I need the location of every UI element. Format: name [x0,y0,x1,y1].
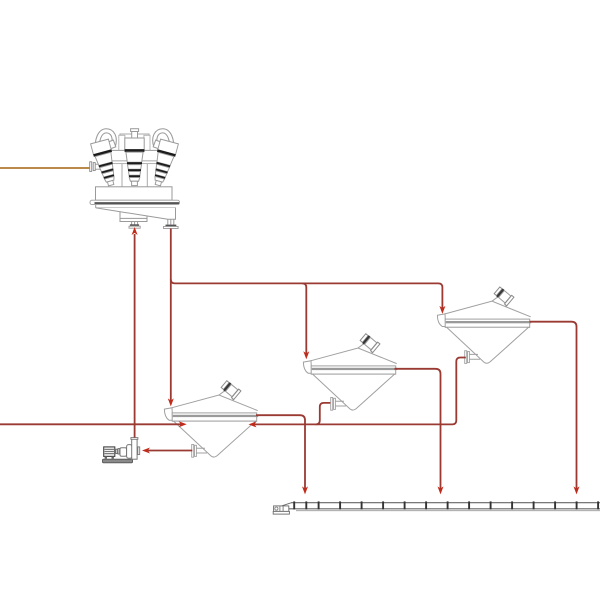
pipe: S2 overflow drop [395,369,441,490]
pipe: cyclone underflow drop [170,229,172,402]
cyclone left [90,139,120,188]
separator S1 (left) [164,380,258,457]
pipe: fresh feed line [0,423,182,425]
conveyor posts [294,501,598,509]
battery overflow hook left [97,131,116,153]
conveyor rails [291,502,600,504]
separator S2 (middle) [303,333,397,410]
battery tank [90,187,180,222]
battery manifold bar [110,150,159,187]
arrow up into battery [132,227,138,235]
battery right nozzle [164,220,179,229]
arrow down onto S2 [303,351,309,359]
feed line (orange) [0,167,91,169]
pipe: S1 underflow to pump [147,450,192,452]
arrow left into S1 cone [249,421,257,427]
arrowheads [132,227,580,494]
pump discharge column [132,439,137,459]
battery left nozzle [129,222,140,229]
arrow right into S1 [179,421,187,427]
arrow down onto S3 [439,306,445,314]
battery center vortex stub [131,129,139,140]
pump base plate [103,459,133,463]
pump motor [104,447,115,457]
feed flange plates [90,162,96,172]
pipe: pump discharge riser [134,234,136,438]
feed pipe stubs [96,164,111,169]
cyclone center [125,138,145,186]
arrow down conveyor mid [438,486,444,494]
pump suction flange [138,447,140,455]
pump casing [127,445,132,459]
arrow down onto S1 [168,398,174,406]
arrow down conveyor left [302,486,308,494]
arrow down conveyor right [574,486,580,494]
pipe: S3 underflow return [253,358,466,425]
pump coupling [116,449,118,453]
pipe: S1 overflow to conveyor [256,415,305,490]
arrow left into pump [142,448,150,454]
pipe: S3 overflow drop [530,322,577,490]
battery overflow hook right [153,131,172,153]
pipe: S2 underflow drop [316,403,331,425]
separator S3 (right) [437,286,531,363]
pipe: branch to S2 [302,283,306,355]
battery support frame [119,134,150,150]
pipe: cyclone overflow header [171,279,443,309]
pump bearing frame [120,448,127,456]
cyclone right [149,139,179,188]
conveyor head box [274,506,289,512]
